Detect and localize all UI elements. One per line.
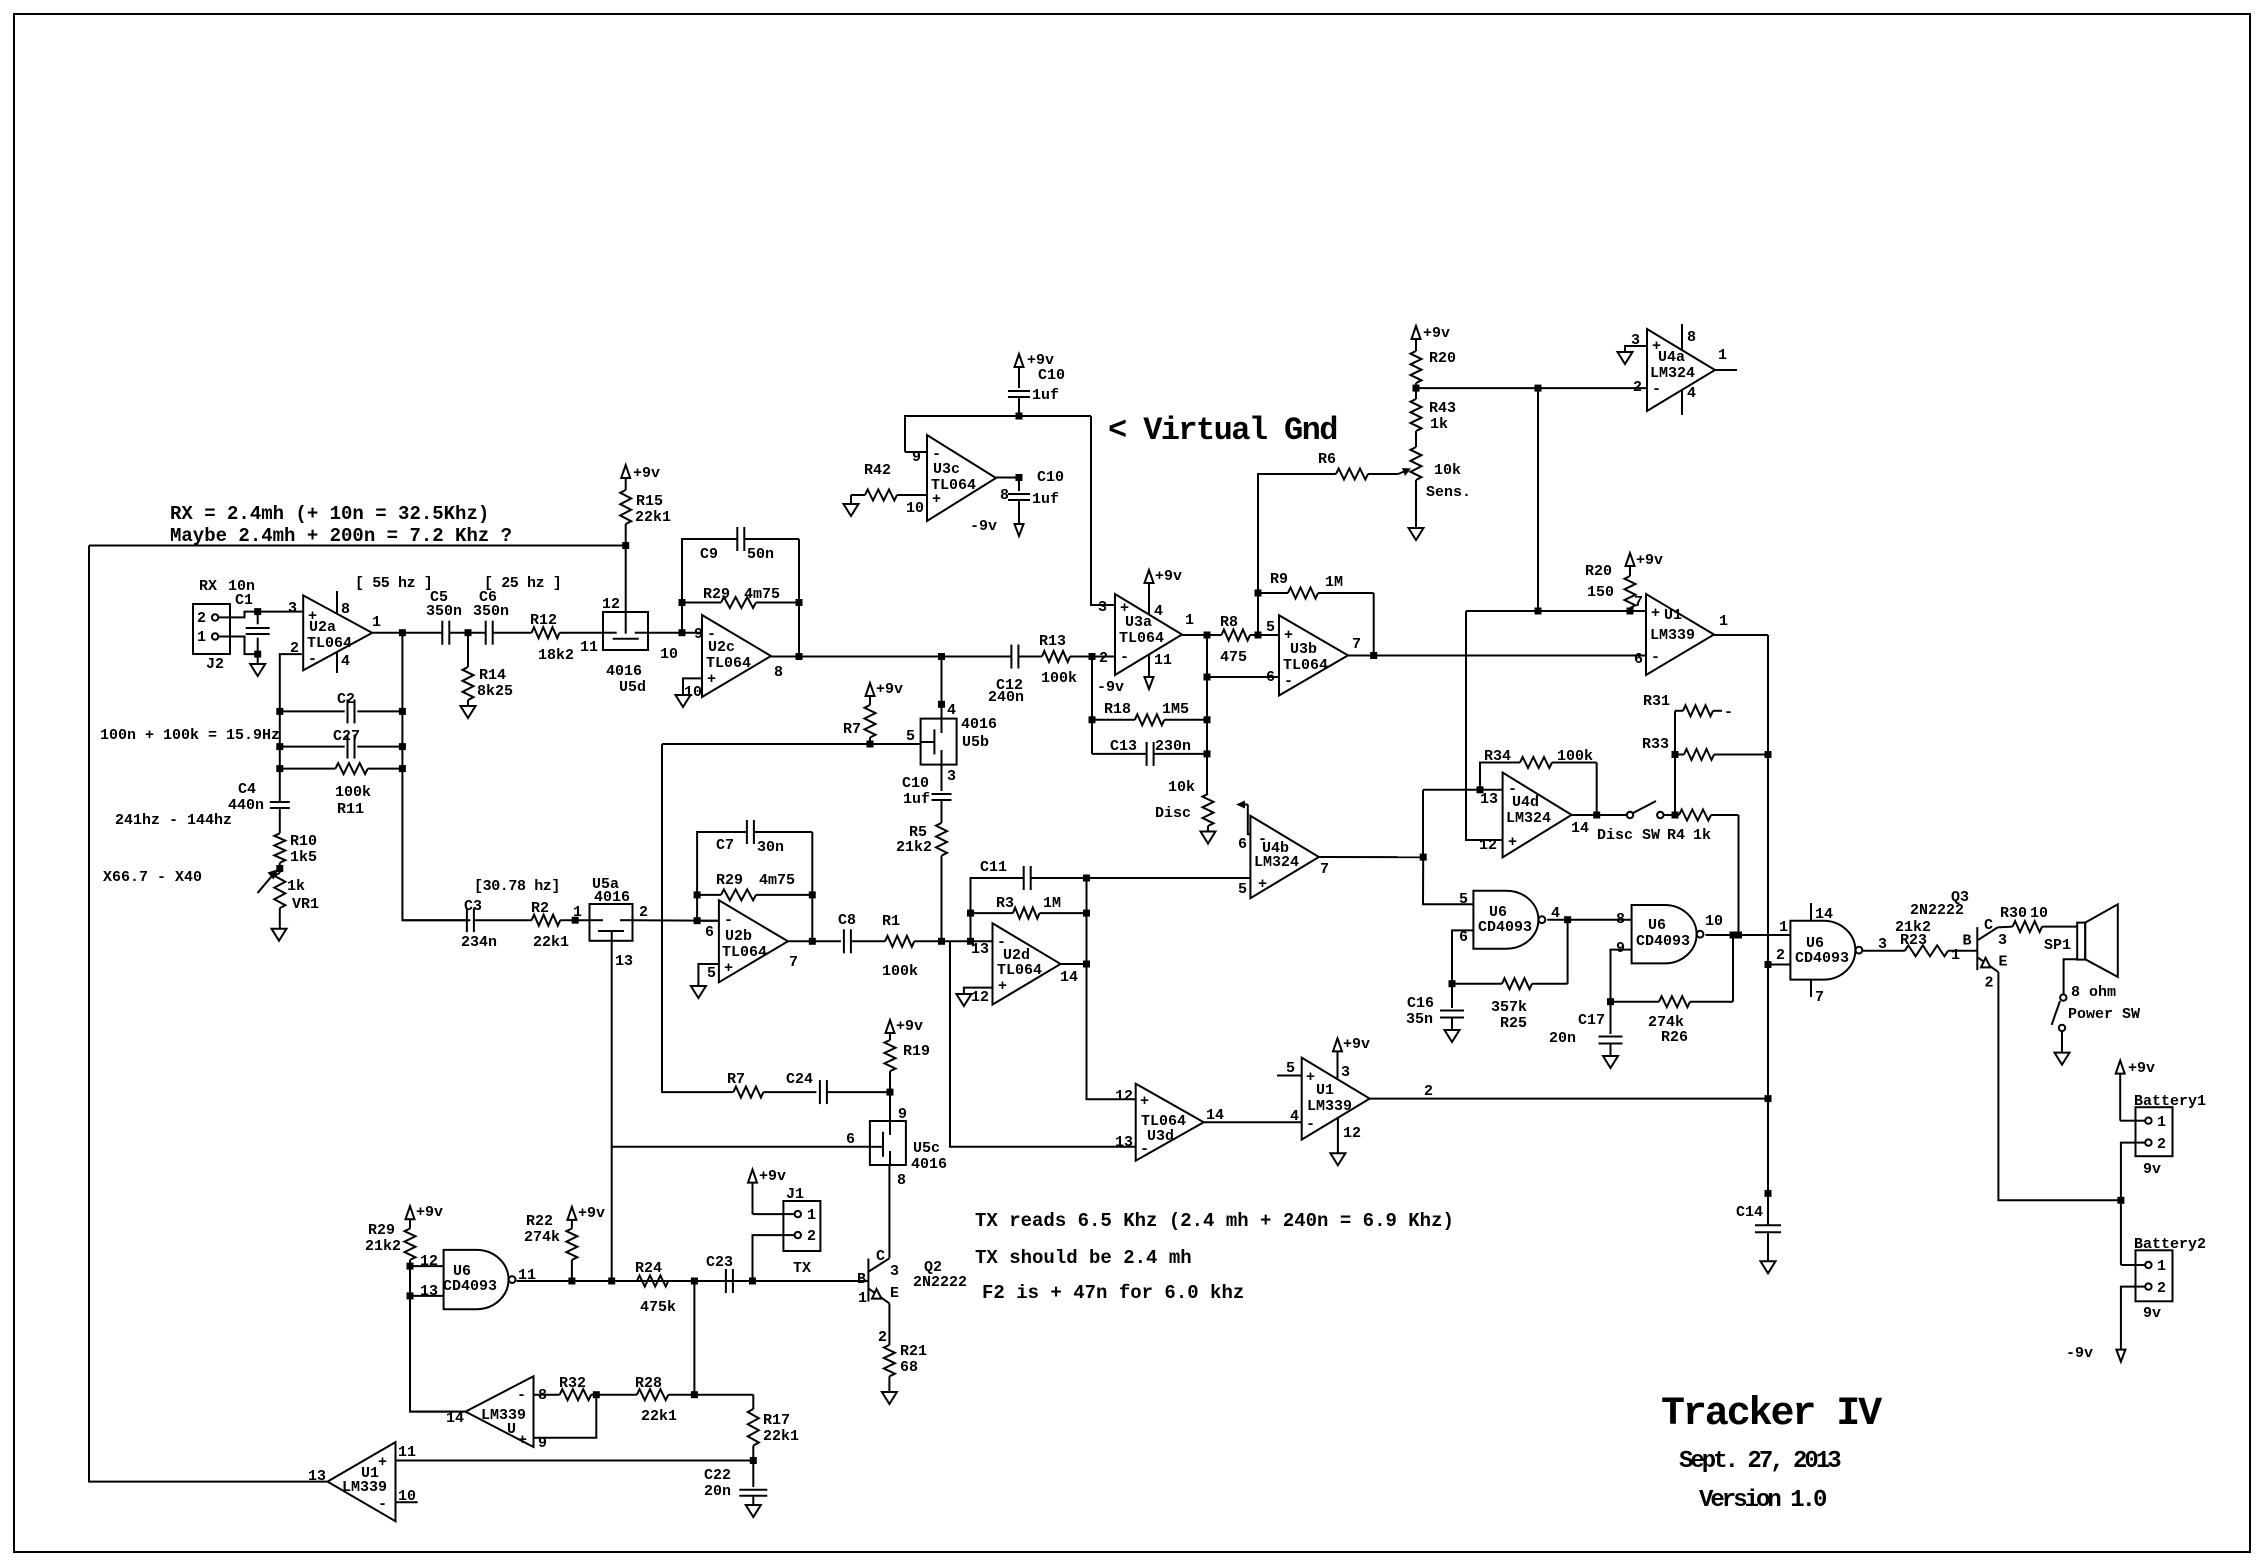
capacitor C13 [1092, 753, 1147, 755]
junction NAND4 pin13 [407, 1292, 414, 1299]
wire R31/R33 rail [1674, 711, 1676, 815]
svg-text:Tracker IV: Tracker IV [1661, 1392, 1882, 1437]
svg-text:350n: 350n [426, 603, 462, 620]
junction U2b pin6 [694, 917, 701, 924]
junction R3 right [1083, 910, 1090, 917]
wire R25 right rail [1567, 920, 1569, 984]
svg-text:2: 2 [1776, 947, 1785, 964]
capacitor C4 [279, 769, 281, 802]
junction C23 right / J1 [749, 1278, 756, 1285]
svg-text:274k: 274k [524, 1229, 560, 1246]
svg-text:R18: R18 [1104, 701, 1131, 718]
wire R10 to VR1 [279, 863, 281, 873]
svg-text:Sept. 27, 2013: Sept. 27, 2013 [1679, 1448, 1841, 1475]
power +9v J1 [748, 1170, 757, 1183]
svg-text:35n: 35n [1406, 1011, 1433, 1028]
svg-text:+: + [724, 960, 733, 977]
ground C17 [1603, 1056, 1618, 1068]
svg-text:5: 5 [1459, 891, 1468, 908]
junction R34 left [1477, 786, 1484, 793]
svg-text:Battery1: Battery1 [2134, 1093, 2206, 1110]
resistor R8 [1207, 634, 1222, 636]
pin 8 U4a [1681, 324, 1683, 350]
svg-text:C17: C17 [1578, 1012, 1605, 1029]
svg-text:U4a: U4a [1658, 349, 1685, 366]
svg-text:1k: 1k [1430, 416, 1448, 433]
resistor R11 [280, 768, 336, 770]
svg-text:1: 1 [2157, 1258, 2166, 1275]
svg-text:22k1: 22k1 [641, 1408, 677, 1425]
svg-text:12: 12 [1479, 837, 1497, 854]
comparator U1 bottom-left [328, 1442, 396, 1521]
svg-text:[ 55 hz ]: [ 55 hz ] [355, 575, 432, 592]
wire rail down to U1 pin7 row [1537, 388, 1539, 611]
wire U1 out [1714, 634, 1768, 636]
junction R8 right / pin5 [1255, 632, 1262, 639]
resistor R31 [1675, 710, 1683, 712]
junction R4 rail / NAND row [1735, 932, 1742, 939]
op-amp U3c [927, 435, 996, 521]
svg-text:U1: U1 [1664, 607, 1682, 624]
wire C11 row to U4b pin5 [1087, 877, 1251, 879]
connector Battery2 [2136, 1250, 2173, 1301]
junction C14 rail joint [1765, 1190, 1772, 1197]
svg-text:10: 10 [1705, 913, 1723, 930]
junction R11 right [399, 765, 406, 772]
resistor R15 [620, 490, 631, 524]
op-amp U3d [1136, 1084, 1204, 1161]
wire NAND2 out to NAND3 pin1 [1706, 934, 1791, 936]
wire left rail down to U1 pin13 [89, 546, 328, 1482]
svg-text:2: 2 [2157, 1136, 2166, 1153]
svg-text:Power SW: Power SW [2068, 1006, 2140, 1023]
junction battery mid [2117, 1197, 2124, 1204]
resistor R21 [888, 1303, 890, 1345]
wire J1 pin1 from +9v [753, 1213, 784, 1215]
svg-text:+9v: +9v [2128, 1060, 2155, 1077]
resistor R7c [733, 1087, 763, 1098]
wire into U3a pin2 [1092, 656, 1115, 658]
junction C13 right [1204, 750, 1211, 757]
svg-text:CD4093: CD4093 [1636, 933, 1690, 950]
wire U3a out rail down [1206, 635, 1208, 794]
resistor R24 [637, 1276, 668, 1287]
junction C2 right [399, 708, 406, 715]
svg-text:234n: 234n [461, 934, 497, 951]
svg-text:+: + [932, 491, 941, 508]
svg-text:5: 5 [707, 965, 716, 982]
svg-text:1: 1 [1719, 613, 1728, 630]
wire U3a pin2 rail down [1091, 657, 1093, 754]
wire U3d pin13 rail [950, 941, 1136, 1147]
wire pin5 rail down to R7/C24 row [662, 744, 733, 1092]
svg-text:9: 9 [1616, 940, 1625, 957]
wire U3b out [1348, 655, 1374, 657]
pin 14 U6d [1810, 903, 1812, 921]
wire R28 rail up [693, 1281, 695, 1395]
junction R15 column / y546 [622, 542, 629, 549]
svg-text:U3c: U3c [933, 461, 960, 478]
svg-text:22k1: 22k1 [763, 1428, 799, 1445]
wire U3c pin9 [905, 451, 927, 453]
wire LM339b pin9 [534, 1395, 597, 1438]
wire NAND4 in rail [410, 1266, 466, 1412]
svg-text:LM339: LM339 [481, 1407, 526, 1424]
op-amp U3b [1279, 615, 1348, 695]
ground C22 [746, 1505, 761, 1517]
svg-text:U5d: U5d [619, 679, 646, 696]
svg-text:U2b: U2b [725, 928, 752, 945]
capacitor C22 [752, 1461, 754, 1488]
ground R14 [467, 700, 469, 706]
svg-text:7: 7 [1815, 989, 1824, 1006]
ground U2d [956, 994, 971, 1006]
svg-text:RX: RX [199, 578, 217, 595]
svg-text:100k: 100k [1041, 670, 1077, 687]
junction U1b out / C14 rail [1765, 1095, 1772, 1102]
op-amp U4b [1250, 816, 1319, 898]
svg-text:LM339: LM339 [342, 1479, 387, 1496]
svg-text:R9: R9 [1270, 571, 1288, 588]
svg-text:X66.7 - X40: X66.7 - X40 [103, 869, 202, 886]
svg-text:2: 2 [2157, 1280, 2166, 1297]
svg-text:+: + [998, 978, 1007, 995]
wire U2b pin6 [697, 920, 719, 922]
svg-text:R8: R8 [1220, 614, 1238, 631]
wire C9 left rail [682, 539, 737, 633]
junction R33 left [1672, 751, 1679, 758]
resistor R1 [885, 936, 914, 947]
svg-text:CD4093: CD4093 [1795, 950, 1849, 967]
svg-text:4016: 4016 [594, 889, 630, 906]
resistor R28 [596, 1394, 637, 1396]
svg-text:+9v: +9v [1636, 552, 1663, 569]
svg-text:Version 1.0: Version 1.0 [1699, 1487, 1827, 1514]
wire U2a out [372, 632, 402, 634]
power +9v R7b [866, 683, 875, 696]
svg-text:CD4093: CD4093 [1478, 919, 1532, 936]
power +9v R19 [886, 1020, 895, 1033]
resistor R33 [1675, 754, 1684, 756]
ground Sens [1415, 480, 1417, 528]
svg-text:1uf: 1uf [903, 791, 930, 808]
svg-text:R42: R42 [864, 462, 891, 479]
svg-text:1: 1 [1718, 347, 1727, 364]
svg-text:14: 14 [1571, 820, 1589, 837]
svg-text:U3b: U3b [1290, 641, 1317, 658]
wire U5b pin3 [941, 765, 943, 791]
op-amp U2c [702, 615, 771, 697]
svg-text:2: 2 [639, 904, 648, 921]
svg-text:RX = 2.4mh (+ 10n = 32.5Khz): RX = 2.4mh (+ 10n = 32.5Khz) [170, 503, 489, 525]
wire pin11 row [396, 1460, 754, 1462]
resistor R20a [1411, 351, 1422, 383]
pin 4 U3a +9v [1148, 582, 1150, 615]
switch Power SW [2060, 994, 2066, 1000]
svg-text:R6: R6 [1318, 451, 1336, 468]
svg-text:+: + [378, 1454, 387, 1471]
resistor R3 [971, 912, 1013, 914]
svg-text:2N2222: 2N2222 [913, 1274, 967, 1291]
junction NAND4 pin12 [407, 1263, 414, 1270]
svg-text:22k1: 22k1 [533, 934, 569, 951]
junction U3b pin6 tee [1204, 674, 1211, 681]
svg-text:R13: R13 [1039, 633, 1066, 650]
svg-text:+: + [1651, 605, 1660, 622]
svg-text:TL064: TL064 [706, 655, 751, 672]
sens wiper arrow [1398, 470, 1408, 474]
resistor R42 [851, 494, 865, 496]
wire J2 pin1 to C1 bottom [218, 637, 257, 655]
svg-text:3: 3 [890, 1263, 899, 1280]
svg-text:8k25: 8k25 [477, 683, 513, 700]
svg-text:+: + [1306, 1069, 1315, 1086]
svg-text:Maybe 2.4mh + 200n = 7.2 Khz ?: Maybe 2.4mh + 200n = 7.2 Khz ? [170, 525, 512, 547]
wire U5c pin8 to Q2 collector [888, 1165, 890, 1258]
capacitor C11 [1023, 866, 1025, 890]
svg-text:7: 7 [1320, 861, 1329, 878]
svg-text:U3d: U3d [1147, 1128, 1174, 1145]
svg-text:-: - [1140, 1141, 1149, 1158]
wire NAND3 pin2 [1768, 964, 1790, 966]
svg-text:10: 10 [906, 500, 924, 517]
svg-text:TL064: TL064 [722, 944, 767, 961]
svg-text:18k2: 18k2 [538, 647, 574, 664]
svg-text:R34: R34 [1484, 748, 1511, 765]
svg-text:4016: 4016 [961, 716, 997, 733]
wire R15 junction to U5d pin12 [625, 546, 627, 613]
svg-text:C8: C8 [838, 912, 856, 929]
svg-text:8: 8 [341, 601, 350, 618]
junction R29a left [679, 599, 686, 606]
wire U3a out [1182, 634, 1207, 636]
svg-text:R24: R24 [635, 1260, 662, 1277]
wire Y2 down to U5b pin4 [941, 657, 943, 719]
svg-text:R26: R26 [1661, 1029, 1688, 1046]
svg-text:R22: R22 [526, 1213, 553, 1230]
wire J2 pin2 to U2a pin3 [218, 612, 303, 618]
svg-text:J1: J1 [786, 1186, 804, 1203]
svg-text:3: 3 [288, 600, 297, 617]
svg-text:100k: 100k [882, 963, 918, 980]
wire U6c pin9 to R26 [1611, 950, 1632, 1002]
svg-text:-: - [308, 651, 317, 668]
pin 12 U1b gnd [1337, 1118, 1339, 1153]
analog switch U5d [603, 612, 648, 650]
svg-text:5: 5 [1238, 881, 1247, 898]
svg-text:R29: R29 [703, 586, 730, 603]
svg-text:+: + [707, 671, 716, 688]
wire C7 left rail [697, 832, 747, 921]
svg-text:C23: C23 [706, 1254, 733, 1271]
svg-text:8: 8 [897, 1172, 906, 1189]
svg-text:21k2: 21k2 [365, 1238, 401, 1255]
capacitor C10a [1008, 390, 1030, 392]
wire U4b out [1319, 856, 1423, 858]
svg-text:U1: U1 [1316, 1082, 1334, 1099]
wire U5a pin2 to U2b pin6 [632, 919, 719, 922]
power +9v R20b [1626, 553, 1635, 566]
wire R43 node to U4a pin2 [1416, 387, 1647, 389]
junction C11 rail / R1 [967, 938, 974, 945]
wire right rail U2a out to C3 row [402, 633, 470, 921]
svg-text:C: C [1984, 917, 1993, 934]
pin 4 U2a [336, 652, 338, 673]
wire NAND4 out row [517, 1280, 869, 1282]
wire U5c pin6 row [612, 1146, 870, 1148]
switch Disc SW [1627, 812, 1633, 818]
resistor R6 [1336, 469, 1368, 480]
svg-text:68: 68 [900, 1359, 918, 1376]
svg-text:13: 13 [1115, 1134, 1133, 1151]
svg-text:-: - [1120, 649, 1129, 666]
junction R20a/R43 [1413, 385, 1420, 392]
svg-text:VR1: VR1 [292, 896, 319, 913]
transistor Q2 2N2222 [867, 1259, 869, 1302]
svg-text:E: E [890, 1285, 899, 1302]
wire LM339b out [410, 1411, 466, 1413]
wire C11 left rail [971, 878, 1024, 941]
svg-text:12: 12 [1115, 1088, 1133, 1105]
op-amp U1 bottom [1302, 1058, 1370, 1140]
op-amp U2d [993, 923, 1061, 1004]
ground Power SW [2061, 1031, 2063, 1053]
junction R33 right [1765, 751, 1772, 758]
pin 11 U3a -9v [1148, 655, 1150, 676]
svg-text:1: 1 [1951, 947, 1960, 964]
wire C9 right rail [798, 539, 800, 657]
svg-text:1: 1 [2157, 1114, 2166, 1131]
nand gate U6 third [1790, 921, 1855, 980]
svg-text:4: 4 [947, 702, 956, 719]
svg-text:E: E [1999, 954, 2008, 971]
svg-text:B: B [857, 1271, 866, 1288]
junction R29a right [796, 599, 803, 606]
svg-text:8: 8 [1616, 911, 1625, 928]
power +9v R29c [406, 1206, 415, 1219]
wire SP1 to power switch [2064, 959, 2078, 994]
potentiometer Sens 10k [1415, 431, 1417, 447]
wire U4a pin3 ground [1625, 346, 1647, 352]
capacitor C9 [736, 527, 738, 551]
wire U2c pin10 ground [683, 678, 702, 695]
svg-text:C4: C4 [238, 781, 256, 798]
junction R19 / C24 / U5c pin9 [887, 1089, 894, 1096]
nand gate U6 fourth [444, 1250, 509, 1309]
ground R42 [850, 495, 852, 504]
analog switch U5a [590, 904, 633, 941]
wire U4b out node to pin5 [1423, 857, 1473, 904]
junction U5b pin4 column [938, 653, 945, 660]
svg-text:R29: R29 [368, 1222, 395, 1239]
junction R22 bottom [568, 1278, 575, 1285]
svg-text:C11: C11 [980, 859, 1007, 876]
svg-text:-: - [1306, 1116, 1315, 1133]
wire R34 left rail [1480, 763, 1520, 790]
svg-text:F2 is + 47n for 6.0 khz: F2 is + 47n for 6.0 khz [982, 1282, 1244, 1304]
svg-text:10k: 10k [1434, 462, 1461, 479]
svg-text:13: 13 [615, 953, 633, 970]
svg-text:+9v: +9v [416, 1204, 443, 1221]
svg-text:C13: C13 [1110, 738, 1137, 755]
svg-text:R7: R7 [843, 721, 861, 738]
svg-text:-: - [724, 912, 733, 929]
svg-text:R19: R19 [903, 1043, 930, 1060]
wire y546 from left rail to R15 column [89, 545, 626, 547]
wire R26 right rail [1732, 935, 1734, 1002]
svg-text:4016: 4016 [911, 1156, 947, 1173]
wire U4b node up to U4d pin13 [1422, 790, 1424, 857]
svg-text:U4d: U4d [1512, 794, 1539, 811]
power +9v R22 [567, 1207, 576, 1220]
svg-text:R14: R14 [479, 667, 506, 684]
svg-text:6: 6 [1238, 836, 1247, 853]
junction C1 bottom [254, 651, 261, 658]
resistor R43 [1415, 388, 1417, 399]
svg-text:Sens.: Sens. [1426, 484, 1471, 501]
svg-text:-9v: -9v [1097, 679, 1124, 696]
wire U2c out row Y2 [771, 656, 1011, 658]
junction U4d out / R34 [1593, 812, 1600, 819]
junction R17 bottom [750, 1457, 757, 1464]
svg-text:-: - [1652, 381, 1661, 398]
junction U3c out [1016, 474, 1023, 481]
wire NAND4 pin13 [410, 1295, 444, 1297]
svg-text:R20: R20 [1585, 563, 1612, 580]
svg-text:3: 3 [1631, 332, 1640, 349]
wire switch to R4 node [1664, 814, 1676, 816]
junction U3b out [1370, 652, 1377, 659]
wire Battery1 pin2 down [2121, 1143, 2136, 1265]
svg-text:TL064: TL064 [1119, 630, 1164, 647]
svg-text:9v: 9v [2143, 1161, 2161, 1178]
svg-text:12: 12 [971, 989, 989, 1006]
svg-text:R31: R31 [1643, 693, 1670, 710]
svg-text:-9v: -9v [2066, 1345, 2093, 1362]
junction U5b pin4 stub [938, 701, 945, 708]
wire J1 pin2 down [753, 1235, 784, 1281]
resistor R5 [936, 823, 947, 856]
svg-text:C2: C2 [337, 691, 355, 708]
junction R24 right / R28 rail [691, 1278, 698, 1285]
svg-text:1: 1 [1779, 919, 1788, 936]
svg-text:R10: R10 [290, 833, 317, 850]
junction R29b right [809, 891, 816, 898]
resistor R12 [532, 627, 560, 638]
power +9v R15 [621, 465, 630, 478]
ground R21 [888, 1376, 890, 1392]
wire R9-R6 rail [1258, 474, 1336, 635]
capacitor C24 [819, 1080, 821, 1104]
junction R20b bottom [1627, 608, 1634, 615]
svg-text:C: C [876, 1248, 885, 1265]
wire R28 to R17 [694, 1394, 753, 1396]
svg-text:7: 7 [1352, 636, 1361, 653]
junction U2d out [1083, 961, 1090, 968]
svg-text:+9v: +9v [876, 681, 903, 698]
resistor R10 [274, 833, 285, 862]
op-amp U1 right [1646, 594, 1714, 675]
wire U3b out to U1 pin6 [1374, 655, 1646, 657]
svg-text:C10: C10 [1037, 469, 1064, 486]
wire U5b pin5 row [662, 743, 921, 745]
svg-text:Disc: Disc [1155, 805, 1191, 822]
wire virtual gnd rail [905, 416, 1091, 452]
svg-text:4: 4 [341, 653, 350, 670]
junction U4a pin2 rail [1535, 385, 1542, 392]
svg-text:-: - [517, 1387, 526, 1404]
svg-text:440n: 440n [228, 797, 264, 814]
